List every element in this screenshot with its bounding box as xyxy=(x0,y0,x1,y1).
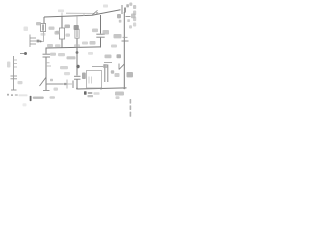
coil L1 xyxy=(41,24,46,32)
caption small mark xyxy=(23,103,27,106)
plate right of arrow xyxy=(72,81,74,89)
transformer T1 bar b xyxy=(107,65,109,83)
arrow of tap xyxy=(36,40,39,43)
label right of battery dash xyxy=(131,14,136,19)
node dot B xyxy=(76,51,79,54)
transistor Q1 branch xyxy=(76,38,78,75)
label above rail right xyxy=(103,5,108,8)
resistor R1 bottom lead xyxy=(61,39,63,48)
transformer T1 bar a xyxy=(104,65,106,83)
ground tick xyxy=(43,90,50,92)
label below bottom rail xyxy=(115,92,124,96)
switch S1 contact xyxy=(96,12,98,14)
antenna node dot xyxy=(24,52,27,55)
label right of Q2 xyxy=(127,72,134,77)
junction tick above rail xyxy=(61,13,63,17)
label battery voltage xyxy=(129,3,132,6)
wire battery dash xyxy=(126,16,131,18)
wire top supply rail xyxy=(44,10,121,17)
label battery designator xyxy=(117,14,121,18)
earphone plate b xyxy=(74,78,81,80)
wire plate to bottom rail xyxy=(76,80,78,89)
transistor Q2 emitter arrow xyxy=(119,64,125,70)
mark below L1 xyxy=(41,33,46,36)
coil L2 left trunk xyxy=(13,56,15,90)
value label of L1 xyxy=(49,27,55,30)
diode D1 triangle base xyxy=(123,36,128,38)
wire parallel upper segment xyxy=(66,12,95,14)
label below node E xyxy=(64,72,70,75)
caption mark center b xyxy=(88,92,93,94)
transistor Q1 upper lead xyxy=(76,17,78,30)
label mid right column xyxy=(111,45,117,48)
label below mid wire b xyxy=(58,53,65,56)
label below mid wire a xyxy=(50,53,56,56)
capacitor C2 plate a xyxy=(96,33,104,35)
earpiece box xyxy=(87,71,102,89)
value label R1 xyxy=(55,31,60,35)
resistor R2 body xyxy=(29,35,31,48)
label R1 xyxy=(65,25,71,29)
capacitor C4 plate a xyxy=(11,75,18,77)
diode D1 bar xyxy=(122,40,129,42)
caption dot c xyxy=(15,94,18,96)
mark center faint xyxy=(88,52,93,55)
label left of coil xyxy=(7,62,10,68)
label L1 xyxy=(36,22,41,25)
resistor R3 core xyxy=(76,30,77,37)
right edge note top c xyxy=(133,17,136,22)
wire arrow shaft xyxy=(46,83,64,85)
label above rail left xyxy=(58,10,64,13)
capacitor C4 plate b xyxy=(11,78,18,80)
wire bottom rail xyxy=(77,88,127,89)
node dot rail right xyxy=(123,87,125,89)
battery plus mark xyxy=(126,4,129,7)
node dot rail mid xyxy=(100,88,102,90)
side note mark xyxy=(116,96,120,99)
battery B1 long plate xyxy=(121,5,123,14)
label above mid wire a xyxy=(47,44,53,47)
battery B1 short plate xyxy=(124,8,126,13)
ground tick left xyxy=(11,89,17,91)
mark right of L1 low xyxy=(56,31,60,34)
capacitor C1 plate b xyxy=(43,56,51,58)
right edge note top d xyxy=(133,23,136,27)
box inner dash b xyxy=(91,77,93,84)
capacitor C2 plate b xyxy=(96,36,104,38)
small vertical before plates xyxy=(66,80,68,89)
capacitor C2 top lead xyxy=(100,15,102,34)
earphone plate a xyxy=(74,75,81,77)
box inner dash a xyxy=(88,77,90,84)
caption dot a xyxy=(7,94,9,96)
wire right trunk xyxy=(123,12,125,88)
variable capacitor arrow slash xyxy=(40,78,46,87)
capacitor C3 plus mark xyxy=(117,54,122,58)
capacitor C1 plate a xyxy=(43,53,51,55)
vertical caption dash 3 xyxy=(130,112,132,117)
right edge note top a xyxy=(133,5,136,9)
arrow head xyxy=(64,83,67,85)
resistor R2 tap 1 xyxy=(30,37,36,39)
coil L2 tap 3 xyxy=(14,66,18,68)
wire left drop from rail xyxy=(43,17,45,24)
coil L2 tap 1 xyxy=(14,59,18,61)
wire mid horizontal xyxy=(46,47,101,48)
switch S1 lever xyxy=(92,10,98,15)
wire L1 to tap xyxy=(41,32,43,42)
value label right of C2 xyxy=(103,30,110,35)
wire into earpiece box xyxy=(92,66,104,68)
node junction dot xyxy=(40,40,42,42)
label left of node E xyxy=(60,66,68,69)
caption word smudge xyxy=(33,97,44,99)
label left of R2 xyxy=(24,27,29,32)
caption dark dash xyxy=(30,96,32,101)
label right of R1 xyxy=(66,34,71,37)
wire antenna dash xyxy=(20,53,24,55)
resistor R3 xyxy=(75,29,79,38)
label above Q1 xyxy=(74,25,79,30)
coil L1 core xyxy=(42,24,44,30)
wire lower C1 end xyxy=(45,84,47,90)
label below arrow wire xyxy=(54,88,59,91)
wire parallel tick xyxy=(83,13,85,16)
right edge note top b xyxy=(133,11,136,16)
label left of box xyxy=(82,73,86,80)
caption faint run xyxy=(19,94,28,96)
wire T1 base segment xyxy=(104,62,112,64)
label above T1 xyxy=(105,55,112,59)
label above mid wire b xyxy=(55,44,61,47)
caption mark center a xyxy=(84,91,87,94)
mark left of trunk top xyxy=(119,20,122,23)
arrow mark at box wire xyxy=(103,64,108,68)
transistor Q2 bar xyxy=(118,64,120,70)
label left of D1 xyxy=(114,34,122,38)
label below mid wire c xyxy=(67,56,76,59)
capacitor C1 bottom lead xyxy=(45,57,47,84)
junction tick2 on C1 branch xyxy=(46,65,51,67)
label left of C2 xyxy=(92,29,98,33)
label lower left of C2 xyxy=(90,41,96,45)
coil L2 tap 2 xyxy=(14,63,18,65)
resistor R2 tap 2 xyxy=(30,40,36,42)
node dot rail left xyxy=(76,88,78,90)
vertical caption dash 1 xyxy=(130,99,132,104)
label above mid wire c xyxy=(74,44,80,47)
resistor R2 tap 3 xyxy=(30,43,36,45)
resistor R1 top lead xyxy=(61,16,63,28)
junction tick on C1 branch xyxy=(46,62,50,64)
mark above arrow wire xyxy=(50,79,53,81)
vertical caption dash 2 xyxy=(130,105,132,110)
label left trunk upper xyxy=(115,73,120,77)
caption mark center d xyxy=(94,92,100,95)
node dot E xyxy=(76,65,79,68)
label right of C4 xyxy=(18,81,23,84)
caption second word xyxy=(50,96,56,99)
label above mid wire d xyxy=(82,42,88,45)
capacitor C1 top lead xyxy=(45,48,47,54)
resistor R1 xyxy=(59,28,64,39)
capacitor C2 bottom lead xyxy=(100,38,102,48)
plus mark right of T1 xyxy=(111,70,114,73)
caption dot b xyxy=(11,94,13,96)
caption mark center c xyxy=(88,95,94,97)
small tick on arrow line xyxy=(65,83,73,85)
mark right of trunk top xyxy=(127,19,130,22)
tick mark upper right xyxy=(129,25,132,28)
